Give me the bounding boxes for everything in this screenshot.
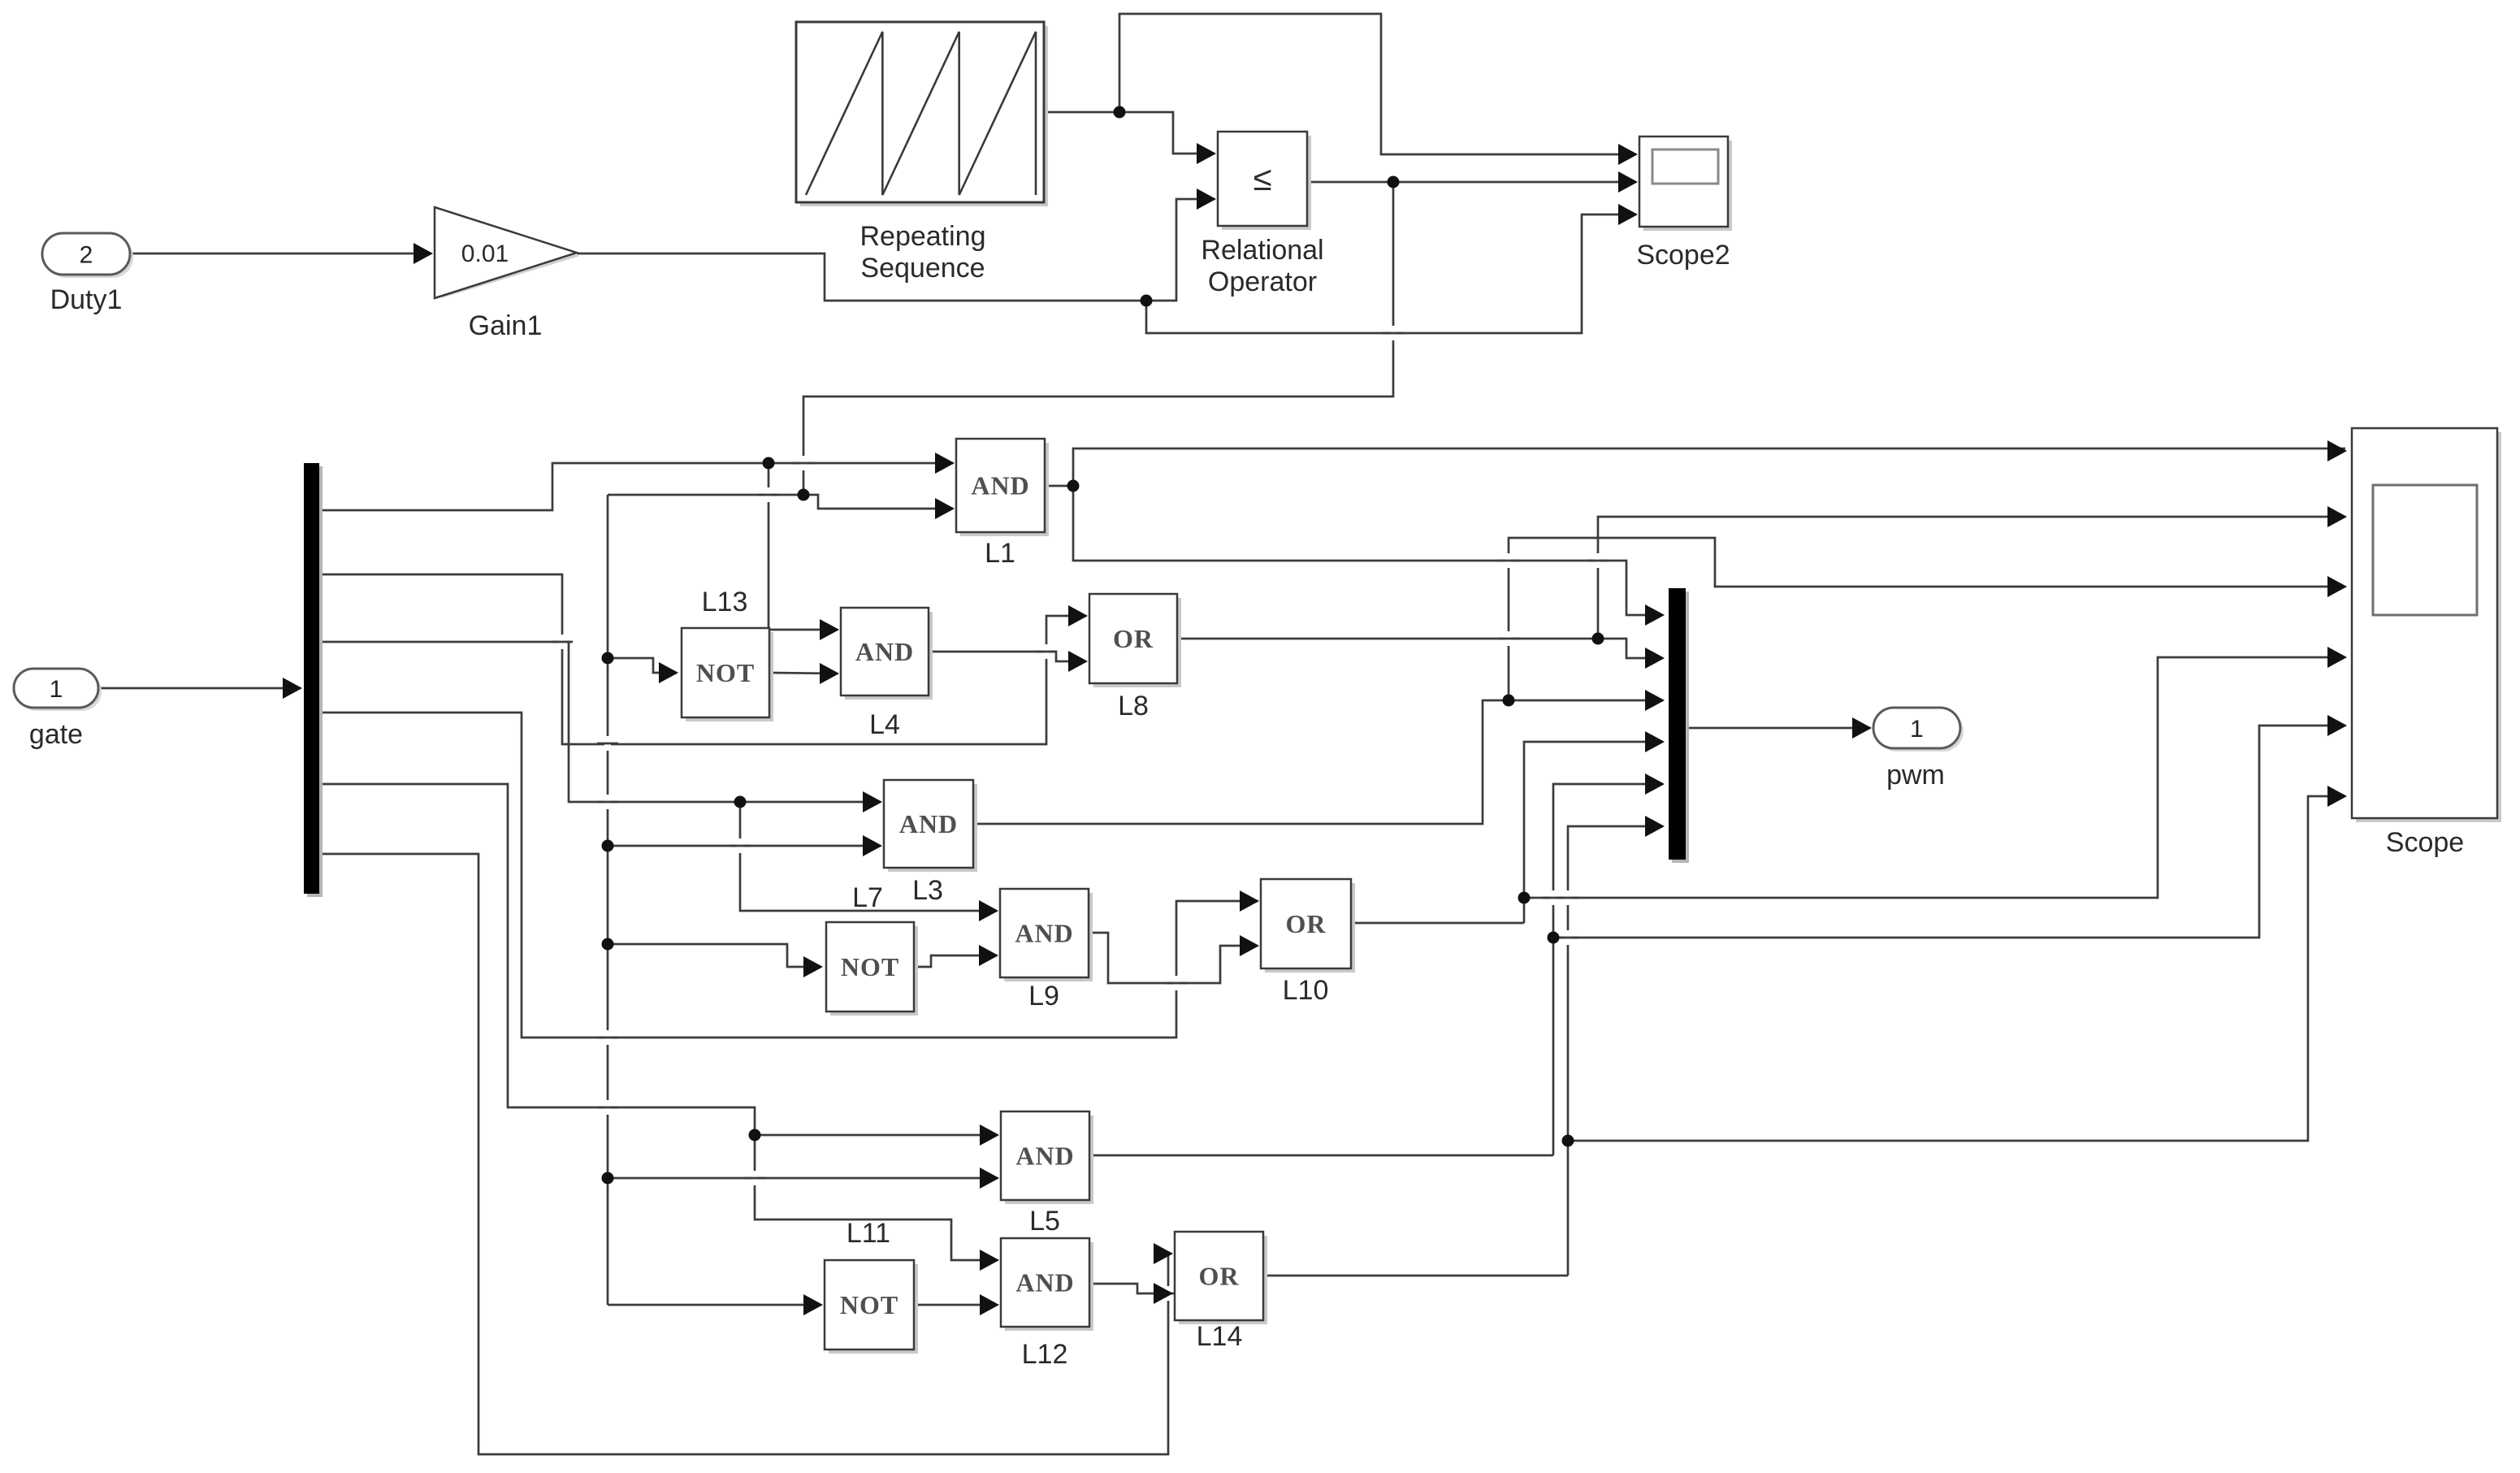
wire carrier to NOT2 xyxy=(608,944,821,967)
or gate L8 xyxy=(1093,598,1181,687)
svg-text:AND: AND xyxy=(855,637,914,666)
wire L5 output to riser xyxy=(1089,1155,1553,1157)
junction node (1321,598) xyxy=(1067,480,1080,492)
or gate L14 xyxy=(1179,1236,1267,1324)
wire L1 branch down to mux input 1 xyxy=(1073,486,1663,615)
wire L1 branch up to Scope input 1 xyxy=(1073,448,2345,486)
svg-text:2: 2 xyxy=(80,242,93,269)
wire L14 output to riser xyxy=(1263,1275,1568,1277)
arrow into L12 in2 xyxy=(980,1294,999,1315)
wire L8 junction up to Scope input 2 xyxy=(1598,517,2345,639)
svg-text:gate: gate xyxy=(29,719,83,750)
gain block Gain1 xyxy=(441,214,580,298)
scope block xyxy=(2356,432,2501,822)
junction node (1715,224) xyxy=(1388,176,1400,188)
wire L4 output to L8 input 2 xyxy=(929,652,1086,661)
arrow into mux in3 xyxy=(1645,690,1665,711)
input port 1 gate xyxy=(17,672,102,711)
svg-text:pwm: pwm xyxy=(1886,760,1945,791)
arrow into Scope in4 xyxy=(2327,647,2347,668)
repeating sequence block xyxy=(800,26,1048,206)
arrow into Scope in6 xyxy=(2327,786,2347,807)
wire RO output to Scope2 input 2 xyxy=(1307,181,1636,184)
arrow into L14 in2 xyxy=(1154,1283,1173,1304)
and gate L9 xyxy=(1004,893,1093,981)
svg-text:AND: AND xyxy=(971,471,1029,500)
arrow into L1 in1 xyxy=(935,453,955,474)
svg-text:L10: L10 xyxy=(1283,975,1329,1006)
svg-text:L8: L8 xyxy=(1118,691,1149,721)
not gate L13 xyxy=(686,632,773,721)
demux bar xyxy=(307,466,323,897)
wire L5 junction to Scope input 5 xyxy=(1553,726,2345,938)
wire L14 junction to Scope input 6 xyxy=(1568,796,2345,1141)
arrow into L9 in2 xyxy=(979,945,998,966)
junction node (929,1397) xyxy=(749,1129,761,1142)
wire tap3 junction down to L9 input 1 xyxy=(740,802,997,911)
wire RS branch to Scope2 input 1 xyxy=(1119,14,1636,154)
arrow into RO in1 xyxy=(1197,143,1216,164)
junction node (748,1041) xyxy=(602,840,614,852)
svg-text:NOT: NOT xyxy=(840,1290,898,1319)
wire junction down to Scope2 input 3 xyxy=(1146,214,1636,333)
svg-text:Operator: Operator xyxy=(1208,266,1317,297)
wire L1 output xyxy=(1045,485,1073,487)
wire L8 output to junction xyxy=(1177,638,1598,640)
wire tap1 junction down to L4 input 1 xyxy=(769,463,838,630)
wire L14 riser to mux input 6 xyxy=(1568,826,1663,1276)
svg-text:L13: L13 xyxy=(702,587,748,617)
junction node (1378,138) xyxy=(1114,106,1126,119)
svg-text:OR: OR xyxy=(1113,624,1154,653)
scope2 block xyxy=(1643,141,1732,231)
arrow into Scope2 in1 xyxy=(1618,144,1638,165)
junction node (989,609) xyxy=(798,489,810,501)
arrow into NOT2 xyxy=(803,956,823,977)
wire L10 riser to mux input 4 xyxy=(1524,742,1663,923)
arrow into mux in4 xyxy=(1645,731,1665,752)
wire tap5 junction down to L12 input 1 xyxy=(755,1135,998,1260)
wire RO output down to carrier junction xyxy=(803,182,1393,495)
wire NOT2 to L9 input 2 xyxy=(914,955,997,967)
svg-text:AND: AND xyxy=(1015,1142,1074,1171)
svg-text:OR: OR xyxy=(1199,1262,1240,1291)
svg-text:Relational: Relational xyxy=(1201,235,1323,266)
junction node (1967,786) xyxy=(1592,633,1604,645)
svg-text:L12: L12 xyxy=(1022,1339,1068,1370)
wire L5 riser to mux input 5 xyxy=(1553,784,1663,1155)
svg-text:NOT: NOT xyxy=(696,658,755,687)
arrow into L8 in1 xyxy=(1068,605,1088,626)
and gate L5 xyxy=(1005,1116,1093,1204)
svg-text:L7: L7 xyxy=(852,882,883,913)
svg-text:L11: L11 xyxy=(846,1218,890,1249)
input port 2 Duty1 xyxy=(45,236,133,278)
arrow into RO in2 xyxy=(1197,188,1216,210)
arrow into Scope in2 xyxy=(2327,506,2347,527)
arrow into Gain1 xyxy=(414,243,433,264)
output port 1 pwm xyxy=(1877,711,1964,752)
wire L3 output to junction xyxy=(973,700,1663,824)
arrow into Scope2 in3 xyxy=(1618,204,1638,225)
wire L8 junction to mux input 2 xyxy=(1598,639,1663,658)
arrow into L3 in1 xyxy=(863,791,882,812)
wire Gain1 to Relational Operator input 2 xyxy=(577,253,1146,301)
svg-text:L9: L9 xyxy=(1028,981,1059,1012)
svg-text:L4: L4 xyxy=(869,709,900,740)
svg-text:L14: L14 xyxy=(1197,1321,1243,1352)
and gate L12 xyxy=(1005,1242,1093,1331)
arrow into L8 in2 xyxy=(1068,651,1088,672)
junction node (1930,1404) xyxy=(1562,1135,1574,1147)
arrow into L10 in1 xyxy=(1240,890,1259,912)
svg-text:AND: AND xyxy=(899,809,958,838)
svg-text:0.01: 0.01 xyxy=(461,240,509,267)
junction node (748,1450) xyxy=(602,1172,614,1185)
wire carrier to NOT3 xyxy=(608,1304,821,1306)
arrow into L4 in1 xyxy=(820,619,839,640)
arrow into demux xyxy=(283,678,302,699)
wire L10 junction to Scope input 4 xyxy=(1524,657,2345,898)
svg-text:NOT: NOT xyxy=(841,952,899,981)
wire Repeating Sequence to RO input 1 xyxy=(1044,112,1215,154)
junction node (946,570) xyxy=(763,457,775,470)
sawtooth icon xyxy=(806,32,1036,195)
wire carrier to NOT L13 xyxy=(608,658,677,673)
wire Duty1 to Gain1 xyxy=(130,253,431,255)
and gate L3 xyxy=(888,784,977,872)
arrow into L9 in1 xyxy=(979,900,998,921)
wire L3 junction up to Scope input 3 xyxy=(1509,538,2345,700)
svg-text:Duty1: Duty1 xyxy=(50,284,123,315)
junction node (1876,1105) xyxy=(1518,892,1531,904)
arrow into L10 in2 xyxy=(1240,935,1259,956)
svg-text:L1: L1 xyxy=(985,538,1015,569)
wire carrier vertical trunk xyxy=(607,495,609,1305)
wire gate to demux xyxy=(98,687,301,690)
arrow into NOT3 xyxy=(803,1294,823,1315)
svg-text:Gain1: Gain1 xyxy=(469,310,543,341)
arrow into L3 in2 xyxy=(863,835,882,856)
wire carrier to L1 input 2 xyxy=(608,495,953,509)
and gate L1 xyxy=(960,443,1049,536)
wire demux tap5 to L5 input 1 xyxy=(319,784,998,1135)
arrow into L14 in1 xyxy=(1154,1243,1173,1264)
svg-text:L5: L5 xyxy=(1029,1206,1060,1237)
or gate L10 xyxy=(1265,883,1355,973)
wire demux tap4 to L10 input 1 xyxy=(319,713,1258,1038)
svg-text:AND: AND xyxy=(1015,919,1073,948)
arrow into Scope in1 xyxy=(2327,440,2347,461)
junction node (1857,862) xyxy=(1503,695,1515,707)
svg-text:1: 1 xyxy=(50,676,63,703)
arrow into NOT L13 xyxy=(659,662,678,683)
wire L12 output to L14 input 2 xyxy=(1089,1284,1171,1293)
wire demux tap1 to L1 input 1 xyxy=(319,463,953,510)
svg-text:Scope2: Scope2 xyxy=(1636,240,1730,271)
wire carrier to L3 input 2 xyxy=(608,845,881,847)
svg-text:≤: ≤ xyxy=(1253,159,1271,197)
arrow into L5 in2 xyxy=(980,1168,999,1189)
arrow into L1 in2 xyxy=(935,498,955,519)
arrow into Scope in5 xyxy=(2327,715,2347,736)
arrow into mux in5 xyxy=(1645,773,1665,795)
wire L10 output to riser xyxy=(1351,922,1524,925)
arrow into Scope in3 xyxy=(2327,576,2347,597)
wire demux tap6 to L14 input 1 xyxy=(319,854,1171,1454)
wire crossing gaps xyxy=(552,326,1609,1301)
not gate NOT3 xyxy=(829,1264,918,1354)
arrow into Scope2 in2 xyxy=(1618,171,1638,193)
relational operator block xyxy=(1222,136,1311,230)
svg-text:Sequence: Sequence xyxy=(860,253,985,284)
junction node (1411,370) xyxy=(1141,295,1153,307)
junction node (1912,1154) xyxy=(1548,932,1560,944)
mux bar xyxy=(1672,591,1689,863)
arrow into L5 in1 xyxy=(980,1124,999,1146)
svg-text:Repeating: Repeating xyxy=(859,221,985,252)
wire carrier to L5 input 2 xyxy=(608,1177,998,1180)
junction node (748,1162) xyxy=(602,938,614,951)
wire mux to pwm port xyxy=(1686,727,1870,730)
arrow into pwm port xyxy=(1852,717,1872,739)
wire NOT L13 to L4 input 2 xyxy=(769,673,838,674)
svg-text:OR: OR xyxy=(1286,909,1327,938)
arrow into L12 in1 xyxy=(980,1250,999,1271)
arrow into L4 in2 xyxy=(820,663,839,684)
wire L9 output to L10 input 2 xyxy=(1089,933,1258,983)
wire junction to RO in2 xyxy=(1146,199,1215,301)
arrow into mux in1 xyxy=(1645,604,1665,626)
and gate L4 xyxy=(845,612,933,700)
junction node (911,987) xyxy=(734,796,747,808)
arrow into mux in2 xyxy=(1645,648,1665,669)
svg-text:L3: L3 xyxy=(912,875,943,906)
not gate NOT2 xyxy=(830,926,918,1016)
wire demux tap3 to L3 input 1 xyxy=(319,642,881,802)
svg-text:1: 1 xyxy=(1910,716,1924,743)
wire NOT3 to L12 input 2 xyxy=(914,1304,997,1306)
svg-text:AND: AND xyxy=(1015,1268,1074,1298)
arrow into mux in6 xyxy=(1645,816,1665,837)
wire demux tap2 to L8 input 1 xyxy=(319,574,1086,744)
junction node (748,810) xyxy=(602,652,614,665)
svg-text:Scope: Scope xyxy=(2386,827,2464,858)
